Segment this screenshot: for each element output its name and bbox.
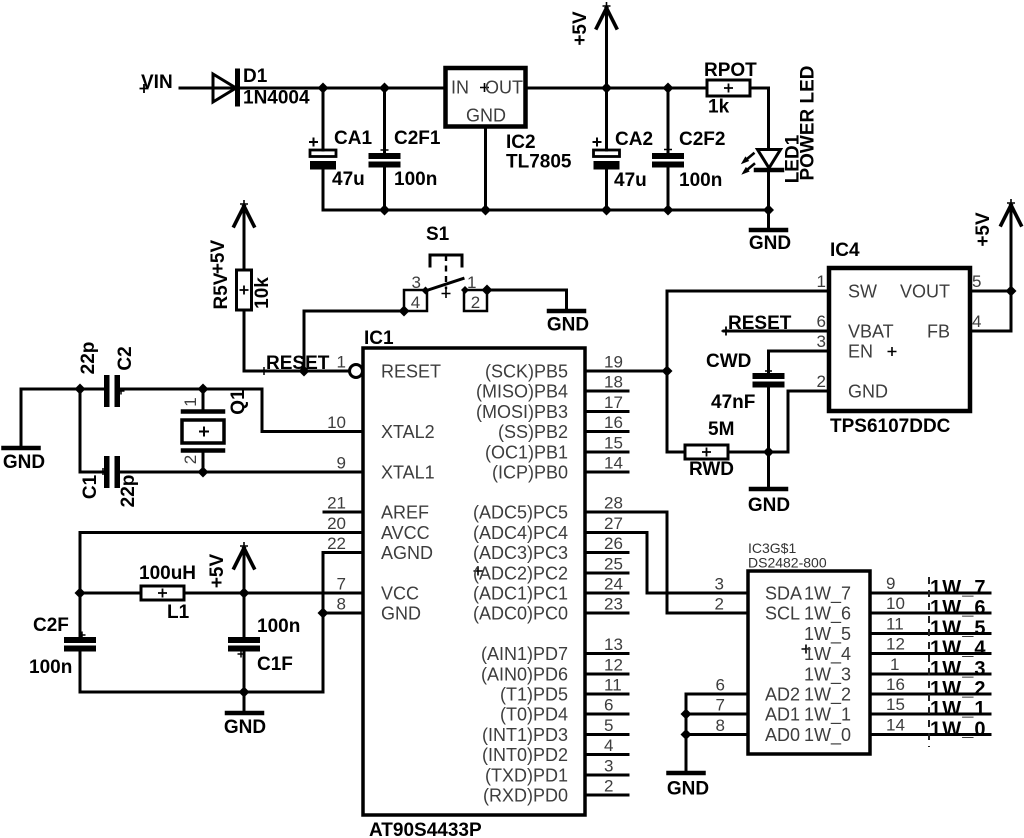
svg-text:47u: 47u: [614, 170, 647, 191]
1-wire bridge IC3 DS2482-800: [748, 571, 870, 754]
node C2 left: [75, 384, 86, 395]
power +5V supply 4: [1010, 207, 1013, 291]
svg-text:SCL: SCL: [765, 604, 800, 624]
svg-text:(ADC3)PC3: (ADC3)PC3: [473, 543, 568, 563]
IC3 pin wire 15: [870, 713, 990, 716]
svg-text:1: 1: [890, 655, 899, 674]
wire gnd to C2: [21, 388, 104, 391]
svg-text:1W_0: 1W_0: [930, 719, 987, 741]
wire XTAL1 line: [120, 471, 363, 474]
wire C2F1 bottom: [383, 168, 386, 211]
svg-text:19: 19: [604, 353, 623, 372]
svg-text:16: 16: [886, 675, 905, 694]
svg-text:GND: GND: [466, 106, 506, 126]
svg-text:IC1: IC1: [364, 328, 394, 349]
svg-text:5M: 5M: [708, 419, 734, 440]
switch S1 pivot dot: [422, 287, 430, 295]
wire CWD bottom: [767, 388, 770, 453]
IC3 origin cross: [802, 645, 811, 654]
wire AREF stub: [324, 511, 363, 514]
IC1 pin stub 27: [585, 531, 628, 534]
svg-text:17: 17: [604, 393, 623, 412]
svg-text:VCC: VCC: [381, 584, 419, 604]
switch S1 bracket: [430, 255, 462, 266]
svg-text:10: 10: [886, 594, 905, 613]
IC1 pin stub 28: [585, 511, 628, 514]
ground under S1: [549, 309, 584, 314]
svg-text:1W_4: 1W_4: [804, 644, 851, 665]
ground left of C2: [20, 389, 23, 446]
capacitor C1F: [228, 637, 260, 643]
IC1 pin stub 6: [585, 713, 628, 716]
svg-text:AD0: AD0: [765, 725, 800, 745]
svg-text:23: 23: [604, 595, 623, 614]
power +5V supply 3: [243, 550, 246, 593]
node AD0: [681, 729, 692, 740]
wire LED to gnd rail: [767, 170, 770, 210]
svg-text:100uH: 100uH: [139, 563, 196, 584]
svg-text:GND: GND: [848, 382, 888, 402]
svg-text:GND: GND: [224, 717, 266, 738]
node S1 pin4: [399, 306, 410, 317]
power +5V supply 2: [243, 208, 246, 270]
svg-text:EN: EN: [848, 342, 873, 362]
svg-text:VOUT: VOUT: [900, 282, 950, 302]
wire IC4 EN pin3: [769, 351, 830, 373]
svg-text:IN: IN: [451, 78, 469, 98]
svg-text:15: 15: [604, 434, 623, 453]
svg-text:9: 9: [886, 574, 895, 593]
IC3 pin wire 10: [870, 612, 990, 615]
svg-text:1W_3: 1W_3: [930, 658, 987, 680]
svg-text:1W_7: 1W_7: [930, 577, 987, 599]
svg-text:C2F2: C2F2: [679, 129, 725, 150]
svg-text:1W_1: 1W_1: [930, 698, 987, 720]
svg-text:+5V: +5V: [973, 212, 994, 247]
wire PB5 to IC4 SW: [628, 370, 667, 373]
resistor RWD: [685, 445, 728, 459]
svg-text:Q1: Q1: [228, 389, 249, 415]
node gnd bus CA2: [601, 205, 612, 216]
svg-text:1W_1: 1W_1: [804, 705, 851, 726]
svg-text:+5V: +5V: [570, 11, 591, 46]
svg-text:2: 2: [181, 455, 200, 464]
ground under C1F: [227, 711, 262, 716]
svg-text:AREF: AREF: [381, 503, 429, 523]
wire VIN to diode: [180, 87, 236, 90]
svg-text:VBAT: VBAT: [848, 322, 894, 342]
svg-text:(AIN1)PD7: (AIN1)PD7: [481, 644, 568, 664]
svg-text:CA2: CA2: [615, 129, 653, 150]
svg-text:C2: C2: [115, 346, 136, 370]
wire to IC1 GND pin: [323, 612, 363, 615]
wire PC4 to SDA: [628, 533, 748, 594]
svg-text:RESET: RESET: [381, 362, 441, 382]
capacitor C2F2: [652, 153, 684, 159]
wire IC4 SW net: [667, 291, 829, 452]
svg-text:XTAL1: XTAL1: [381, 463, 435, 483]
capacitor CA2: [594, 150, 620, 157]
wire RPOT to LED: [750, 88, 769, 149]
svg-text:6: 6: [604, 696, 613, 715]
svg-text:+5V: +5V: [208, 240, 229, 275]
svg-text:CA1: CA1: [334, 128, 372, 149]
svg-text:SW: SW: [848, 282, 877, 302]
voltage regulator IC2: [446, 68, 526, 127]
svg-text:1W_0: 1W_0: [804, 725, 851, 746]
node S1 pin2 out: [482, 285, 493, 296]
svg-text:2: 2: [604, 777, 613, 796]
svg-text:4: 4: [972, 312, 981, 331]
IC1 origin cross: [474, 567, 483, 576]
IC1 pin stub 15: [585, 451, 628, 454]
svg-text:GND: GND: [667, 779, 709, 800]
svg-text:2: 2: [817, 372, 826, 391]
svg-text:(INT1)PD3: (INT1)PD3: [482, 725, 568, 745]
node AD1: [681, 709, 692, 720]
svg-text:8: 8: [716, 716, 725, 735]
ground under LED: [751, 228, 786, 233]
svg-text:11: 11: [886, 615, 904, 634]
inductor L1: [141, 586, 184, 600]
svg-text:1: 1: [467, 273, 476, 292]
svg-text:28: 28: [604, 494, 623, 513]
svg-text:(ICP)PB0: (ICP)PB0: [492, 463, 568, 483]
svg-text:GND: GND: [547, 315, 589, 336]
IC3 pin wire 14: [870, 733, 990, 736]
IC1 pin stub 4: [585, 753, 628, 756]
wire CA2 bottom: [605, 169, 608, 210]
switch S1 contact dot: [461, 286, 469, 294]
capacitor C2F1: [369, 153, 401, 159]
IC1 pin stub 23: [585, 612, 628, 615]
diode D1: [213, 74, 236, 102]
wire R5V to RESET: [244, 310, 350, 371]
node C1F top: [239, 588, 250, 599]
wire PC5 to SCL: [628, 512, 748, 613]
wire AD2 AD1 AD0 tie: [686, 694, 748, 771]
svg-text:(ADC5)PC5: (ADC5)PC5: [473, 503, 568, 523]
svg-text:(INT0)PD2: (INT0)PD2: [482, 745, 568, 765]
svg-text:3: 3: [604, 757, 613, 776]
svg-text:1: 1: [817, 272, 826, 291]
wire S1 to RESET: [304, 311, 404, 371]
svg-text:(AIN0)PD6: (AIN0)PD6: [481, 665, 568, 685]
svg-text:24: 24: [604, 575, 623, 594]
svg-text:GND: GND: [381, 604, 421, 624]
svg-text:2: 2: [471, 293, 480, 312]
node +5V rail A: [601, 83, 612, 94]
node GND pin8 corner: [318, 608, 329, 619]
wire IC2 GND down: [484, 126, 487, 210]
svg-text:IC4: IC4: [830, 240, 860, 261]
svg-text:(RXD)PD0: (RXD)PD0: [483, 786, 568, 806]
crystal Q1: [202, 389, 205, 409]
wire CA2 top: [605, 88, 608, 150]
svg-text:1W_7: 1W_7: [804, 584, 851, 605]
wire C1 branch: [80, 389, 104, 472]
svg-text:L1: L1: [167, 602, 190, 623]
wire CA1 bottom: [322, 169, 325, 210]
svg-text:13: 13: [604, 635, 623, 654]
svg-text:100n: 100n: [29, 657, 72, 678]
svg-text:9: 9: [337, 454, 346, 473]
svg-text:14: 14: [604, 454, 623, 473]
wire C1F top: [243, 593, 246, 637]
svg-text:(MISO)PB4: (MISO)PB4: [476, 382, 568, 402]
power +5V supply 1: [605, 10, 608, 88]
boost converter IC4: [829, 268, 970, 411]
wire IC2 OUT to RPOT: [527, 87, 707, 90]
wire S1 to gnd: [487, 290, 567, 309]
node C1F gnd: [239, 687, 250, 698]
capacitor CA1: [310, 150, 336, 157]
svg-text:3: 3: [715, 575, 724, 594]
svg-text:(SS)PB2: (SS)PB2: [498, 422, 568, 442]
IC1 pin stub 24: [585, 592, 628, 595]
svg-text:100n: 100n: [257, 616, 300, 637]
wire top gnd bus: [323, 209, 769, 212]
IC1 pin stub 13: [585, 652, 628, 655]
svg-text:1: 1: [337, 353, 346, 372]
svg-text:26: 26: [604, 534, 623, 553]
svg-text:20: 20: [327, 514, 346, 533]
wire CA1 top: [322, 88, 325, 150]
svg-text:(T0)PD4: (T0)PD4: [500, 705, 568, 725]
IC3 pin wire 16: [870, 693, 990, 696]
svg-text:POWER LED: POWER LED: [798, 65, 819, 180]
svg-text:(MOSI)PB3: (MOSI)PB3: [476, 402, 568, 422]
node gnd bus C2F2: [663, 205, 674, 216]
svg-text:1W_4: 1W_4: [930, 638, 987, 660]
svg-text:10k: 10k: [252, 277, 273, 309]
svg-text:1k: 1k: [708, 97, 730, 118]
svg-text:2: 2: [715, 595, 724, 614]
IC1 RESET bubble: [350, 365, 363, 378]
node RESET junction: [299, 366, 310, 377]
svg-text:(ADC4)PC4: (ADC4)PC4: [473, 523, 568, 543]
svg-text:18: 18: [604, 373, 623, 392]
wire C2F1 top: [383, 88, 386, 153]
IC1 pin stub 3: [585, 774, 628, 777]
svg-text:IC2: IC2: [506, 132, 536, 153]
svg-text:12: 12: [886, 635, 905, 654]
node C2F2 top: [663, 83, 674, 94]
svg-text:(ADC1)PC1: (ADC1)PC1: [473, 584, 568, 604]
svg-text:5: 5: [604, 716, 613, 735]
svg-text:10: 10: [327, 413, 346, 432]
switch S1 actuator dashed: [445, 255, 447, 289]
svg-text:22p: 22p: [118, 475, 139, 508]
svg-text:6: 6: [716, 676, 725, 695]
svg-text:C1F: C1F: [257, 654, 293, 675]
svg-text:7: 7: [337, 575, 346, 594]
wire C1F bottom: [243, 652, 246, 693]
IC1 pin stub 2: [585, 794, 628, 797]
svg-text:1W_6: 1W_6: [930, 597, 987, 619]
IC1 pin stub 5: [585, 733, 628, 736]
IC2 origin cross: [480, 83, 489, 92]
capacitor C2: [104, 375, 110, 407]
svg-text:(OC1)PB1: (OC1)PB1: [485, 443, 568, 463]
IC1 pin stub 14: [585, 471, 628, 474]
svg-text:(ADC0)PC0: (ADC0)PC0: [473, 604, 568, 624]
svg-text:14: 14: [886, 716, 905, 735]
svg-text:GND: GND: [748, 495, 790, 516]
wire XTAL2 elbow: [262, 389, 363, 432]
svg-text:C1: C1: [80, 474, 101, 499]
IC3 pin wire 9: [870, 592, 990, 595]
node SCK SW junction: [662, 366, 673, 377]
svg-text:RWD: RWD: [689, 459, 734, 480]
svg-text:1: 1: [181, 397, 200, 406]
svg-text:1W_2: 1W_2: [930, 678, 987, 700]
svg-text:AD1: AD1: [765, 705, 800, 725]
svg-text:1W_6: 1W_6: [804, 604, 851, 625]
node Q1 top: [198, 384, 209, 395]
IC1 pin stub 16: [585, 430, 628, 433]
svg-text:RESET: RESET: [266, 353, 330, 374]
svg-text:GND: GND: [749, 233, 791, 254]
wire L1 left: [80, 592, 141, 595]
ground under IC3 AD: [669, 771, 704, 776]
svg-text:XTAL2: XTAL2: [381, 422, 435, 442]
IC4 origin cross: [888, 347, 897, 356]
svg-text:22p: 22p: [78, 342, 99, 375]
svg-text:25: 25: [604, 555, 623, 574]
node VOUT: [1006, 286, 1017, 297]
svg-text:47u: 47u: [332, 169, 365, 190]
svg-text:(ADC2)PC2: (ADC2)PC2: [473, 564, 568, 584]
node gnd bus C2F1: [379, 205, 390, 216]
capacitor C1: [104, 456, 110, 488]
svg-text:11: 11: [604, 676, 622, 695]
wire LED gnd stem: [767, 210, 770, 228]
svg-text:S1: S1: [426, 224, 450, 245]
node gnd bus LED: [763, 205, 774, 216]
microcontroller IC1 AT90S4433P: [363, 348, 585, 815]
wire diode to IC2 IN: [236, 87, 443, 90]
IC3 pin wire 12: [870, 652, 990, 655]
svg-text:VIN: VIN: [141, 72, 173, 93]
wire CWD gnd stem: [767, 452, 770, 487]
svg-text:RPOT: RPOT: [704, 60, 757, 81]
svg-text:(TXD)PD1: (TXD)PD1: [485, 766, 568, 786]
wire IC4 GND pin2: [788, 391, 829, 452]
node gnd bus IC2: [480, 205, 491, 216]
IC1 pin stub 11: [585, 693, 628, 696]
wire C2F2 top: [667, 88, 670, 153]
IC1 pin stub 17: [585, 410, 628, 413]
IC1 pin stub 26: [585, 551, 628, 554]
svg-text:1W_5: 1W_5: [930, 618, 987, 640]
svg-text:100n: 100n: [679, 170, 722, 191]
svg-text:GND: GND: [3, 452, 45, 473]
svg-text:12: 12: [604, 656, 623, 675]
capacitor CWD: [753, 373, 785, 379]
wire C1F gnd stem: [243, 692, 246, 711]
svg-text:22: 22: [327, 534, 346, 553]
svg-text:15: 15: [886, 695, 905, 714]
svg-text:R5V: R5V: [211, 272, 232, 309]
svg-text:4: 4: [411, 293, 420, 312]
switch S1 pad 2: [464, 290, 487, 311]
wire VOUT to +5V: [970, 290, 1011, 293]
wire RWD left: [667, 451, 685, 454]
svg-text:+5V: +5V: [207, 554, 228, 589]
IC1 pin stub 18: [585, 390, 628, 393]
switch S1 pad 4: [404, 290, 427, 311]
wire C2F top: [79, 593, 82, 637]
svg-text:DS2482-800: DS2482-800: [748, 555, 827, 571]
wire bottom gnd run: [80, 553, 363, 693]
node RWD CWD gnd: [763, 447, 774, 458]
svg-text:1W_3: 1W_3: [804, 665, 851, 686]
resistor RPOT: [707, 80, 750, 96]
wire RWD right: [728, 451, 788, 454]
svg-text:TL7805: TL7805: [506, 152, 572, 173]
svg-text:AGND: AGND: [381, 543, 433, 563]
svg-text:SDA: SDA: [765, 584, 802, 604]
dashed page boundary: [928, 577, 930, 747]
IC1 pin stub 19: [585, 370, 628, 373]
svg-text:100n: 100n: [394, 169, 437, 190]
svg-text:TPS6107DDC: TPS6107DDC: [830, 416, 951, 437]
capacitor C2F: [64, 637, 96, 643]
wire C2F2 bottom: [667, 168, 670, 211]
svg-text:C2F1: C2F1: [394, 128, 441, 149]
svg-text:AVCC: AVCC: [381, 523, 430, 543]
IC1 pin stub 25: [585, 572, 628, 575]
svg-text:7: 7: [716, 696, 725, 715]
svg-text:AT90S4433P: AT90S4433P: [369, 820, 482, 838]
svg-text:OUT: OUT: [485, 78, 523, 98]
svg-text:27: 27: [604, 514, 623, 533]
wire AVCC line: [80, 533, 363, 594]
node VCC left: [75, 588, 86, 599]
svg-text:8: 8: [337, 595, 346, 614]
IC3 pin wire 1: [870, 673, 990, 676]
svg-text:(T1)PD5: (T1)PD5: [500, 685, 568, 705]
svg-text:C2F: C2F: [33, 615, 69, 636]
svg-text:1W_5: 1W_5: [804, 624, 851, 645]
svg-text:(SCK)PB5: (SCK)PB5: [485, 362, 568, 382]
svg-text:5: 5: [972, 272, 981, 291]
wire C2 to Q1 top: [120, 388, 262, 391]
IC1 pin stub 12: [585, 673, 628, 676]
svg-text:3: 3: [817, 332, 826, 351]
node at CA1 top: [318, 83, 329, 94]
svg-text:1W_2: 1W_2: [804, 685, 851, 706]
svg-text:1N4004: 1N4004: [243, 88, 310, 109]
svg-text:FB: FB: [927, 322, 950, 342]
LED LED1: [758, 150, 781, 169]
wire L1 to VCC: [184, 592, 363, 595]
IC3 pin wire 11: [870, 632, 990, 635]
svg-text:AD2: AD2: [765, 685, 800, 705]
node at C2F1 top: [379, 83, 390, 94]
ground under RWD: [751, 487, 786, 492]
svg-text:D1: D1: [243, 66, 268, 87]
wire C2F bottom: [79, 652, 82, 693]
svg-text:3: 3: [412, 273, 421, 292]
svg-text:6: 6: [817, 312, 826, 331]
wire VBAT stub: [724, 330, 829, 333]
node Q1 bottom: [198, 467, 209, 478]
svg-text:21: 21: [327, 494, 346, 513]
svg-text:CWD: CWD: [706, 351, 751, 372]
svg-text:16: 16: [604, 413, 623, 432]
